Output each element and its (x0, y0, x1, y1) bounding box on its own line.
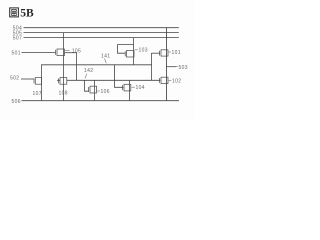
svg-text:503: 503 (179, 65, 188, 71)
svg-text:507: 507 (13, 36, 22, 42)
transistor T107 (35, 78, 41, 85)
bus line 507 (24, 37, 179, 39)
wire T106 gate riser (85, 80, 89, 91)
svg-text:103: 103 (139, 48, 148, 54)
leader for 503 (176, 66, 178, 68)
wire vertical T105-T108 column (63, 33, 65, 101)
wire vertical x77 (76, 53, 78, 81)
svg-text:501: 501 (12, 50, 21, 56)
transistor T102 (161, 77, 168, 83)
bus line 506 (22, 100, 180, 102)
wire vertical node141 to T104 gate (115, 65, 124, 87)
wire 503 output tick (167, 66, 177, 68)
leader for 141 (105, 59, 107, 64)
svg-text:141: 141 (101, 54, 110, 60)
leader for 103 (135, 49, 138, 51)
svg-text:101: 101 (172, 50, 181, 56)
svg-text:105: 105 (72, 48, 81, 54)
svg-text:5B: 5B (20, 8, 34, 20)
svg-text:106: 106 (101, 89, 110, 95)
wire T104 column (129, 80, 131, 101)
wire T103 diode loop (118, 45, 134, 54)
wire vertical output column (166, 28, 168, 101)
wire T106 column (94, 80, 96, 101)
svg-text:104: 104 (136, 85, 145, 91)
leader for 101 (169, 51, 171, 53)
title glyph 圖 (drawn) (10, 8, 19, 17)
leader for 142 (85, 74, 87, 79)
svg-text:107: 107 (33, 91, 42, 97)
wire 502 lead (21, 78, 34, 80)
wire vertical T103 column (133, 38, 135, 65)
svg-text:108: 108 (59, 91, 68, 97)
bus line 505 (24, 32, 179, 34)
transistor T105 (57, 49, 65, 56)
transistor T106 (90, 86, 97, 93)
wire vertical node141 drop to node142 (151, 53, 153, 80)
wire node142 horizontal (67, 79, 160, 81)
leader for 102 (169, 80, 172, 82)
wire T108 gate stub (57, 79, 60, 81)
svg-text:502: 502 (10, 75, 19, 81)
wire T101 gate lead (151, 52, 160, 54)
wire node141 horizontal (41, 64, 152, 66)
wire 501 lead (22, 52, 56, 54)
leader for 105 (65, 49, 69, 51)
leader for 104 (132, 86, 135, 88)
transistor T104 (124, 84, 131, 91)
transistor T103 (127, 51, 135, 58)
svg-text:142: 142 (84, 68, 93, 74)
svg-text:102: 102 (172, 79, 181, 85)
wire vertical T107 column (41, 65, 43, 101)
svg-text:506: 506 (12, 99, 21, 105)
transistor T108 (60, 78, 67, 85)
leader for 106 (97, 90, 100, 92)
bus line 504 (24, 27, 179, 29)
transistor T101 (161, 50, 168, 56)
wire T105 right stub (65, 52, 77, 54)
